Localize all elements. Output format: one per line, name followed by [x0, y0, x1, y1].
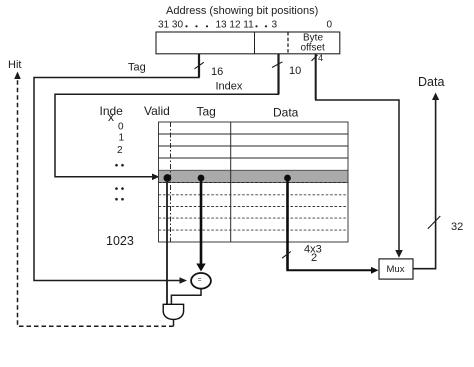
svg-text:offset: offset: [301, 43, 325, 54]
svg-text:Data: Data: [418, 75, 444, 89]
svg-text:13 12 11: 13 12 11: [216, 20, 255, 31]
svg-text:Index: Index: [216, 81, 243, 93]
svg-text:0: 0: [118, 122, 124, 133]
svg-text:Data: Data: [273, 106, 299, 120]
svg-text:16: 16: [211, 66, 223, 78]
svg-text:Valid: Valid: [144, 104, 170, 118]
svg-text:4: 4: [318, 53, 323, 63]
svg-text:2: 2: [311, 252, 317, 264]
svg-text:Address (showing bit positions: Address (showing bit positions): [166, 5, 318, 17]
svg-text:32: 32: [451, 221, 463, 233]
svg-text:31 30: 31 30: [158, 20, 183, 31]
svg-text:Mux: Mux: [387, 264, 405, 275]
svg-text:0: 0: [327, 20, 333, 31]
svg-text:10: 10: [289, 65, 301, 77]
svg-text:Tag: Tag: [128, 62, 146, 74]
svg-text:Hit: Hit: [8, 59, 21, 71]
svg-text:2: 2: [117, 145, 123, 156]
svg-text:1023: 1023: [106, 234, 134, 248]
svg-text:x: x: [108, 110, 114, 124]
svg-text:=: =: [198, 277, 202, 284]
svg-text:1: 1: [119, 133, 125, 144]
svg-text:3: 3: [272, 20, 278, 31]
svg-text:Tag: Tag: [197, 105, 216, 119]
